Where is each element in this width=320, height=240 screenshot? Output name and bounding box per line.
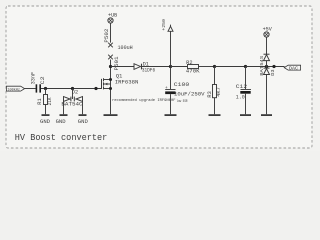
ground (Q1 source) bbox=[104, 114, 118, 116]
capacitor C100 bbox=[165, 67, 175, 115]
wire P501 to drain node bbox=[110, 60, 112, 80]
svg-text:DAC: DAC bbox=[289, 67, 299, 71]
resistor R2 bbox=[188, 65, 199, 69]
wire HV node to R2 bbox=[171, 66, 188, 68]
svg-text:+250: +250 bbox=[162, 19, 167, 31]
node HV junction bbox=[169, 65, 172, 68]
wire R2 to FB node bbox=[199, 66, 215, 68]
node clamp junction bbox=[265, 65, 268, 68]
svg-text:recommended upgrade IRF9N60F: recommended upgrade IRF9N60F bbox=[112, 98, 176, 103]
transistor Q1 bbox=[102, 78, 113, 114]
svg-text:1.0: 1.0 bbox=[236, 95, 245, 101]
ground (D2 left) bbox=[60, 114, 68, 116]
ground (D2 right) bbox=[79, 114, 87, 116]
resistor R1 bbox=[44, 89, 48, 115]
svg-text:D1: D1 bbox=[143, 61, 149, 67]
wire FB node to C12 node bbox=[215, 66, 246, 68]
output tag DAC bbox=[284, 65, 300, 70]
svg-text:BAT54S: BAT54S bbox=[259, 56, 265, 76]
ground (C100) bbox=[165, 114, 177, 116]
svg-text:31DF6: 31DF6 bbox=[142, 68, 155, 74]
svg-text:470K: 470K bbox=[186, 69, 201, 75]
svg-text:P501: P501 bbox=[114, 57, 120, 71]
wire C12 node to output tag bbox=[246, 66, 285, 68]
svg-text:4K7: 4K7 bbox=[216, 87, 222, 97]
svg-text:C2: C2 bbox=[40, 76, 46, 84]
svg-text:D3: D3 bbox=[270, 69, 276, 76]
svg-text:HV Boost converter: HV Boost converter bbox=[15, 132, 108, 143]
node FB junction at R3 bbox=[213, 65, 216, 68]
resistor R3 bbox=[213, 67, 217, 115]
svg-text:GND: GND bbox=[56, 119, 66, 125]
capacitor C12 bbox=[240, 67, 251, 115]
svg-text:R2: R2 bbox=[186, 60, 192, 66]
node D2 junction bbox=[71, 87, 74, 90]
power +5V connector bbox=[264, 32, 269, 37]
svg-text:100kHz: 100kHz bbox=[7, 87, 20, 92]
wire node to D1 bbox=[111, 66, 135, 68]
node C12 junction bbox=[244, 65, 247, 68]
ground (C12) bbox=[240, 114, 251, 116]
svg-text:BAT54C: BAT54C bbox=[61, 102, 82, 108]
node R1 junction bbox=[44, 87, 47, 90]
svg-text:33nF: 33nF bbox=[31, 72, 37, 85]
svg-text:+UB: +UB bbox=[108, 12, 117, 18]
svg-text:IRF638N: IRF638N bbox=[115, 79, 139, 85]
pad P501 bbox=[108, 55, 113, 60]
node output junction bbox=[272, 65, 275, 68]
diode D4 upper clamp (BAT54S) bbox=[264, 37, 270, 66]
input tag 100kHz bbox=[6, 86, 35, 91]
svg-text:GND: GND bbox=[40, 119, 50, 125]
ground (R3) bbox=[209, 114, 221, 116]
svg-text:D2: D2 bbox=[72, 90, 78, 96]
pad P502 bbox=[108, 43, 113, 48]
svg-text:R3: R3 bbox=[207, 91, 213, 97]
svg-text:R1: R1 bbox=[37, 98, 43, 104]
svg-text:10uF/250V: 10uF/250V bbox=[174, 91, 205, 98]
svg-text:+5V: +5V bbox=[263, 26, 273, 32]
svg-text:low ESR: low ESR bbox=[177, 99, 188, 104]
diode D3 lower clamp bbox=[264, 67, 270, 115]
svg-text:+: + bbox=[165, 86, 168, 91]
svg-text:100uH: 100uH bbox=[118, 45, 133, 51]
diode D2 BAT54C dual bbox=[64, 89, 83, 115]
ground (R1) bbox=[42, 114, 50, 116]
capacitor C2 bbox=[36, 84, 102, 92]
diode D1 bbox=[134, 64, 171, 70]
wire +UB to pad P502 bbox=[110, 23, 112, 42]
power +UB connector bbox=[108, 18, 113, 23]
svg-text:P502: P502 bbox=[104, 29, 110, 43]
svg-text:C12: C12 bbox=[236, 84, 247, 90]
power flag +250 bbox=[168, 25, 173, 67]
node drain junction bbox=[109, 65, 112, 68]
svg-text:GND: GND bbox=[78, 119, 88, 125]
svg-text:21K: 21K bbox=[47, 97, 53, 105]
ground (D3) bbox=[261, 114, 272, 116]
svg-text:C100: C100 bbox=[174, 81, 190, 88]
node gate junction bbox=[94, 87, 97, 90]
